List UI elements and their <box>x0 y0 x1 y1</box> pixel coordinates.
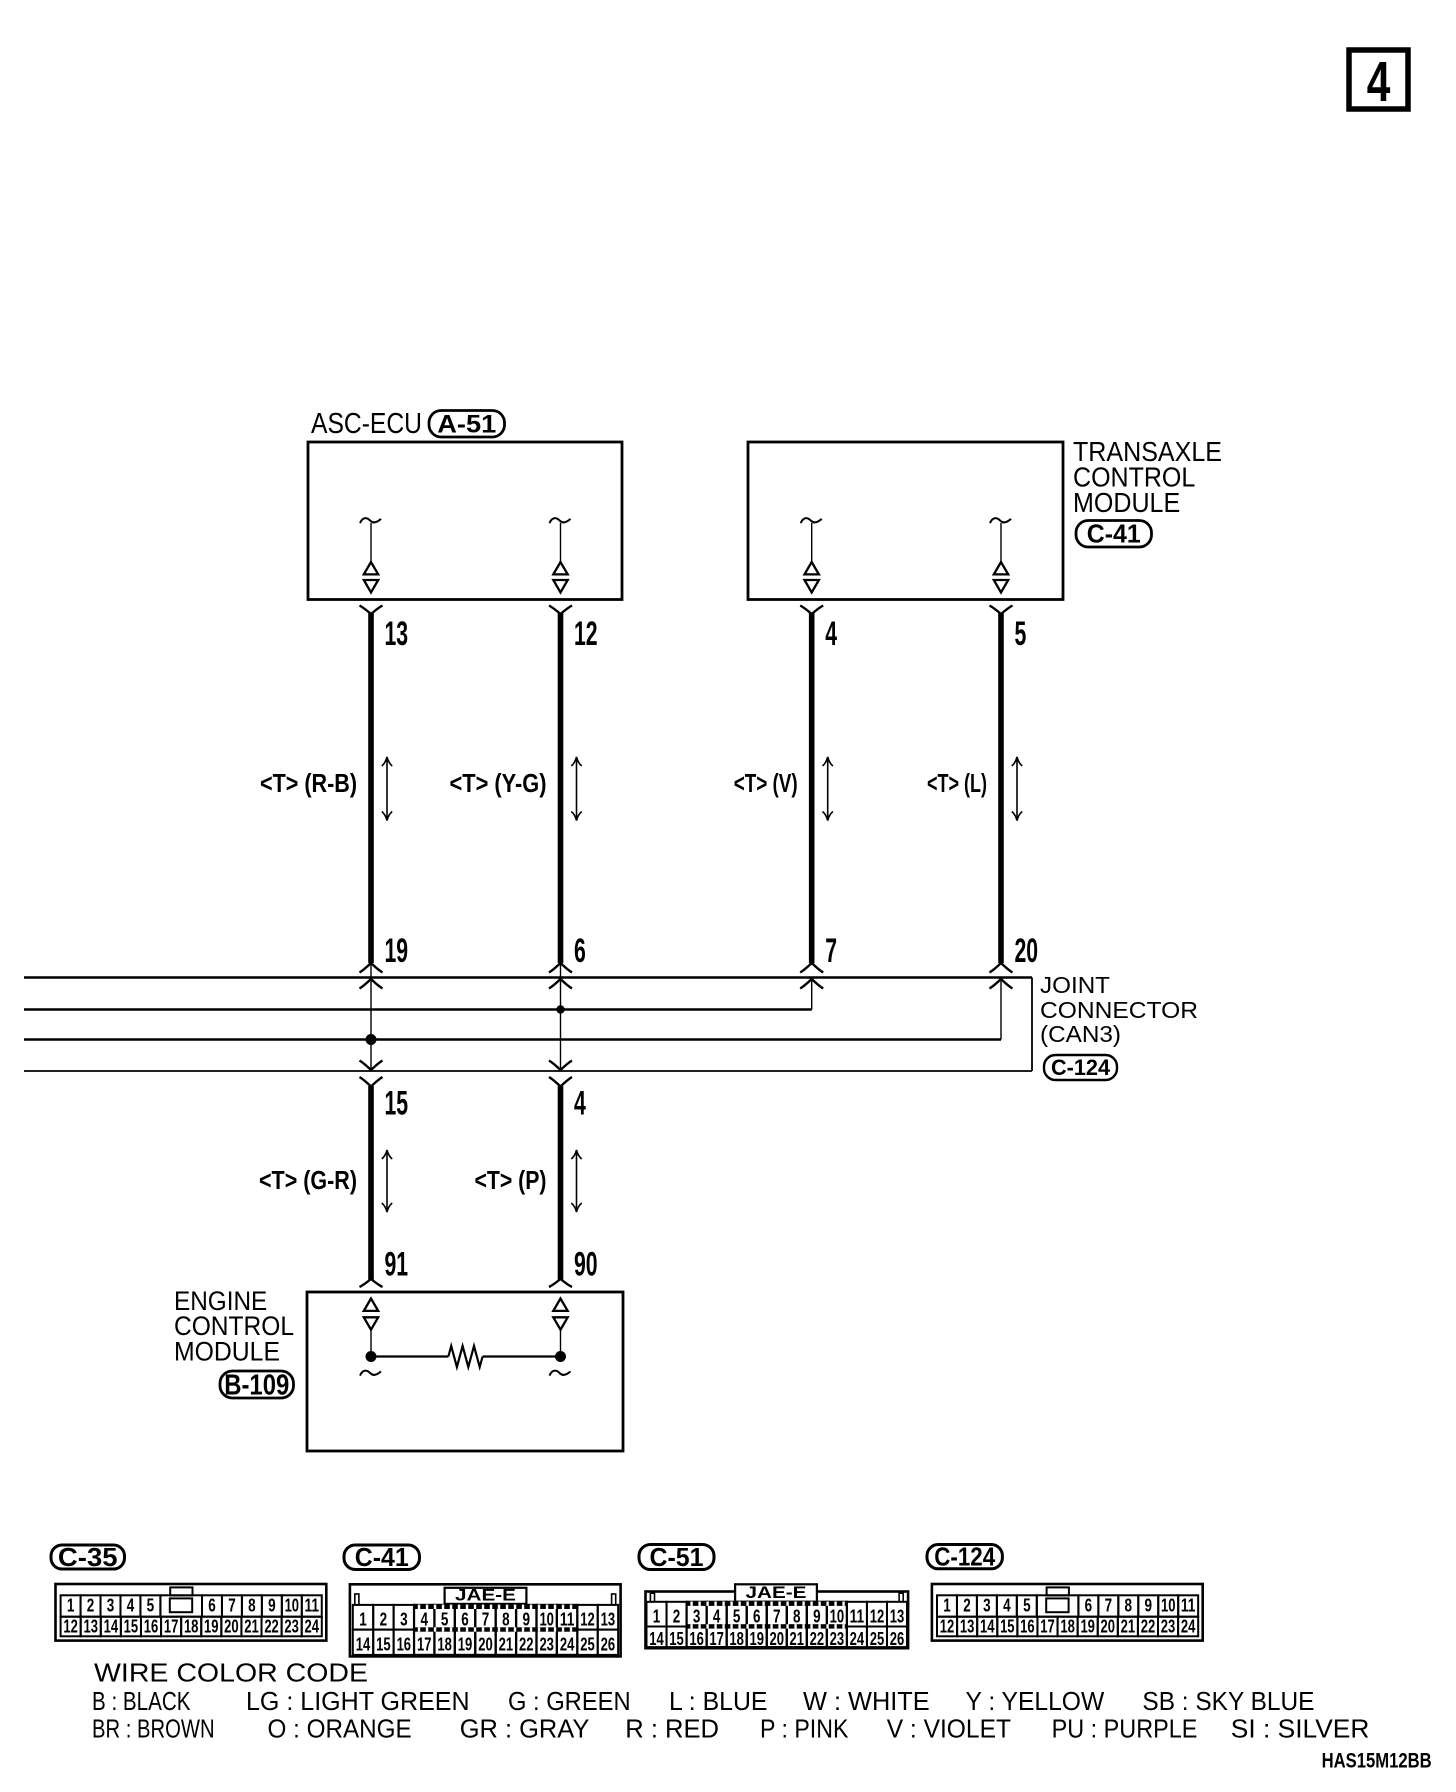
svg-text:7: 7 <box>228 1596 236 1616</box>
svg-text:9: 9 <box>813 1606 821 1626</box>
svg-text:4: 4 <box>825 615 837 653</box>
svg-text:18: 18 <box>184 1616 199 1636</box>
svg-text:MODULE: MODULE <box>174 1337 280 1367</box>
svg-text:<T> (L): <T> (L) <box>927 770 987 798</box>
svg-text:4: 4 <box>1367 50 1391 114</box>
svg-text:2: 2 <box>963 1596 971 1616</box>
svg-text:9: 9 <box>523 1610 531 1630</box>
svg-text:5: 5 <box>441 1610 449 1630</box>
svg-text:JOINT: JOINT <box>1040 972 1110 998</box>
svg-text:A-51: A-51 <box>437 410 496 438</box>
svg-text:5: 5 <box>147 1596 155 1616</box>
svg-text:10: 10 <box>830 1606 845 1626</box>
svg-text:21: 21 <box>499 1635 514 1655</box>
svg-text:20: 20 <box>1101 1616 1116 1636</box>
svg-text:4: 4 <box>420 1610 428 1630</box>
svg-text:4: 4 <box>1003 1596 1011 1616</box>
svg-text:8: 8 <box>793 1606 801 1626</box>
svg-text:21: 21 <box>1121 1616 1136 1636</box>
svg-text:11: 11 <box>305 1596 320 1616</box>
svg-text:15: 15 <box>124 1616 139 1636</box>
svg-text:5: 5 <box>1023 1596 1031 1616</box>
svg-text:16: 16 <box>144 1616 159 1636</box>
svg-text:20: 20 <box>478 1635 493 1655</box>
svg-text:17: 17 <box>1040 1616 1055 1636</box>
svg-text:16: 16 <box>397 1635 412 1655</box>
svg-text:Y : YELLOW: Y : YELLOW <box>966 1686 1105 1716</box>
svg-text:24: 24 <box>305 1616 320 1636</box>
svg-text:18: 18 <box>1060 1616 1075 1636</box>
svg-text:7: 7 <box>773 1606 781 1626</box>
svg-text:17: 17 <box>164 1616 179 1636</box>
svg-text:19: 19 <box>458 1635 473 1655</box>
svg-text:15: 15 <box>376 1635 391 1655</box>
svg-text:6: 6 <box>1085 1596 1093 1616</box>
svg-text:6: 6 <box>574 932 586 970</box>
svg-text:3: 3 <box>983 1596 991 1616</box>
svg-text:WIRE COLOR CODE: WIRE COLOR CODE <box>94 1658 368 1688</box>
svg-text:13: 13 <box>83 1616 98 1636</box>
svg-text:10: 10 <box>285 1596 300 1616</box>
svg-text:11: 11 <box>1181 1596 1196 1616</box>
svg-text:13: 13 <box>601 1610 616 1630</box>
svg-text:JAE-E: JAE-E <box>746 1583 807 1602</box>
svg-text:4: 4 <box>574 1085 586 1123</box>
svg-text:19: 19 <box>204 1616 219 1636</box>
svg-text:20: 20 <box>770 1629 785 1649</box>
svg-text:1: 1 <box>653 1606 661 1626</box>
svg-text:C-41: C-41 <box>355 1542 409 1572</box>
svg-text:22: 22 <box>1141 1616 1156 1636</box>
svg-text:HAS15M12BB: HAS15M12BB <box>1322 1750 1432 1773</box>
svg-text:15: 15 <box>385 1085 409 1123</box>
svg-text:8: 8 <box>1125 1596 1133 1616</box>
svg-text:<T> (Y-G): <T> (Y-G) <box>450 770 547 798</box>
svg-text:23: 23 <box>284 1616 299 1636</box>
svg-text:ASC-ECU: ASC-ECU <box>311 408 422 440</box>
svg-text:22: 22 <box>264 1616 279 1636</box>
svg-text:12: 12 <box>940 1616 955 1636</box>
svg-text:O : ORANGE: O : ORANGE <box>268 1714 412 1744</box>
svg-text:SB : SKY BLUE: SB : SKY BLUE <box>1142 1686 1314 1716</box>
svg-text:21: 21 <box>244 1616 259 1636</box>
svg-text:JAE-E: JAE-E <box>455 1585 516 1604</box>
svg-text:14: 14 <box>356 1635 371 1655</box>
svg-text:C-51: C-51 <box>650 1542 704 1572</box>
svg-text:23: 23 <box>539 1635 554 1655</box>
svg-text:2: 2 <box>87 1596 95 1616</box>
svg-text:11: 11 <box>850 1606 865 1626</box>
svg-text:SI : SILVER: SI : SILVER <box>1231 1714 1370 1744</box>
svg-text:90: 90 <box>574 1246 598 1284</box>
svg-text:V : VIOLET: V : VIOLET <box>887 1714 1011 1744</box>
svg-text:16: 16 <box>689 1629 704 1649</box>
svg-text:9: 9 <box>1145 1596 1153 1616</box>
svg-text:19: 19 <box>385 932 409 970</box>
svg-text:3: 3 <box>107 1596 115 1616</box>
svg-text:1: 1 <box>359 1610 367 1630</box>
svg-text:5: 5 <box>733 1606 741 1626</box>
svg-text:91: 91 <box>385 1246 409 1284</box>
svg-text:14: 14 <box>104 1616 119 1636</box>
svg-text:<T> (V): <T> (V) <box>734 770 798 798</box>
svg-text:15: 15 <box>1000 1616 1015 1636</box>
svg-text:18: 18 <box>729 1629 744 1649</box>
svg-text:23: 23 <box>1161 1616 1176 1636</box>
svg-text:12: 12 <box>63 1616 78 1636</box>
svg-text:22: 22 <box>810 1629 825 1649</box>
svg-text:19: 19 <box>749 1629 764 1649</box>
svg-text:14: 14 <box>980 1616 995 1636</box>
svg-text:BR : BROWN: BR : BROWN <box>92 1714 215 1744</box>
svg-text:20: 20 <box>1015 932 1039 970</box>
svg-text:6: 6 <box>208 1596 216 1616</box>
svg-text:3: 3 <box>400 1610 408 1630</box>
svg-text:2: 2 <box>673 1606 681 1626</box>
svg-text:MODULE: MODULE <box>1073 487 1180 518</box>
svg-text:<T> (P): <T> (P) <box>475 1167 547 1195</box>
svg-text:18: 18 <box>437 1635 452 1655</box>
svg-text:CONNECTOR: CONNECTOR <box>1040 997 1198 1023</box>
svg-text:25: 25 <box>870 1629 885 1649</box>
svg-text:C-41: C-41 <box>1087 519 1141 549</box>
svg-text:12: 12 <box>870 1606 885 1626</box>
svg-text:4: 4 <box>127 1596 135 1616</box>
svg-text:16: 16 <box>1020 1616 1035 1636</box>
svg-text:9: 9 <box>268 1596 276 1616</box>
svg-text:C-124: C-124 <box>934 1542 995 1572</box>
svg-text:26: 26 <box>601 1635 616 1655</box>
svg-text:1: 1 <box>67 1596 75 1616</box>
svg-text:R : RED: R : RED <box>625 1714 719 1744</box>
svg-text:12: 12 <box>580 1610 595 1630</box>
svg-text:5: 5 <box>1015 615 1027 653</box>
svg-text:13: 13 <box>890 1606 905 1626</box>
svg-text:17: 17 <box>709 1629 724 1649</box>
svg-text:24: 24 <box>560 1635 575 1655</box>
svg-text:24: 24 <box>850 1629 865 1649</box>
svg-text:15: 15 <box>669 1629 684 1649</box>
svg-text:11: 11 <box>560 1610 575 1630</box>
svg-text:L : BLUE: L : BLUE <box>669 1686 768 1716</box>
svg-text:4: 4 <box>713 1606 721 1626</box>
svg-text:3: 3 <box>693 1606 701 1626</box>
svg-text:G : GREEN: G : GREEN <box>508 1686 631 1716</box>
svg-text:7: 7 <box>482 1610 490 1630</box>
svg-text:<T> (G-R): <T> (G-R) <box>259 1167 357 1195</box>
svg-text:13: 13 <box>960 1616 975 1636</box>
svg-text:PU : PURPLE: PU : PURPLE <box>1052 1714 1198 1744</box>
svg-text:2: 2 <box>380 1610 388 1630</box>
svg-text:GR : GRAY: GR : GRAY <box>460 1714 590 1744</box>
svg-text:P : PINK: P : PINK <box>760 1714 849 1744</box>
svg-text:C-35: C-35 <box>58 1542 118 1572</box>
svg-text:6: 6 <box>461 1610 469 1630</box>
svg-text:B-109: B-109 <box>224 1370 289 1402</box>
svg-text:14: 14 <box>649 1629 664 1649</box>
svg-text:19: 19 <box>1080 1616 1095 1636</box>
svg-text:W : WHITE: W : WHITE <box>803 1686 930 1716</box>
svg-text:7: 7 <box>1105 1596 1113 1616</box>
svg-text:1: 1 <box>943 1596 951 1616</box>
svg-text:23: 23 <box>830 1629 845 1649</box>
svg-text:20: 20 <box>224 1616 239 1636</box>
svg-text:17: 17 <box>417 1635 432 1655</box>
svg-text:10: 10 <box>539 1610 554 1630</box>
svg-text:LG : LIGHT GREEN: LG : LIGHT GREEN <box>246 1686 470 1716</box>
svg-text:C-124: C-124 <box>1051 1055 1111 1080</box>
svg-text:8: 8 <box>248 1596 256 1616</box>
svg-text:B : BLACK: B : BLACK <box>92 1686 191 1716</box>
svg-text:26: 26 <box>890 1629 905 1649</box>
svg-text:10: 10 <box>1161 1596 1176 1616</box>
svg-text:22: 22 <box>519 1635 534 1655</box>
svg-text:<T> (R-B): <T> (R-B) <box>260 770 357 798</box>
svg-text:21: 21 <box>790 1629 805 1649</box>
svg-text:24: 24 <box>1181 1616 1196 1636</box>
svg-text:25: 25 <box>580 1635 595 1655</box>
svg-text:7: 7 <box>825 932 837 970</box>
svg-text:8: 8 <box>502 1610 510 1630</box>
svg-text:6: 6 <box>753 1606 761 1626</box>
svg-text:13: 13 <box>385 615 409 653</box>
svg-text:(CAN3): (CAN3) <box>1040 1021 1121 1047</box>
svg-text:12: 12 <box>574 615 598 653</box>
